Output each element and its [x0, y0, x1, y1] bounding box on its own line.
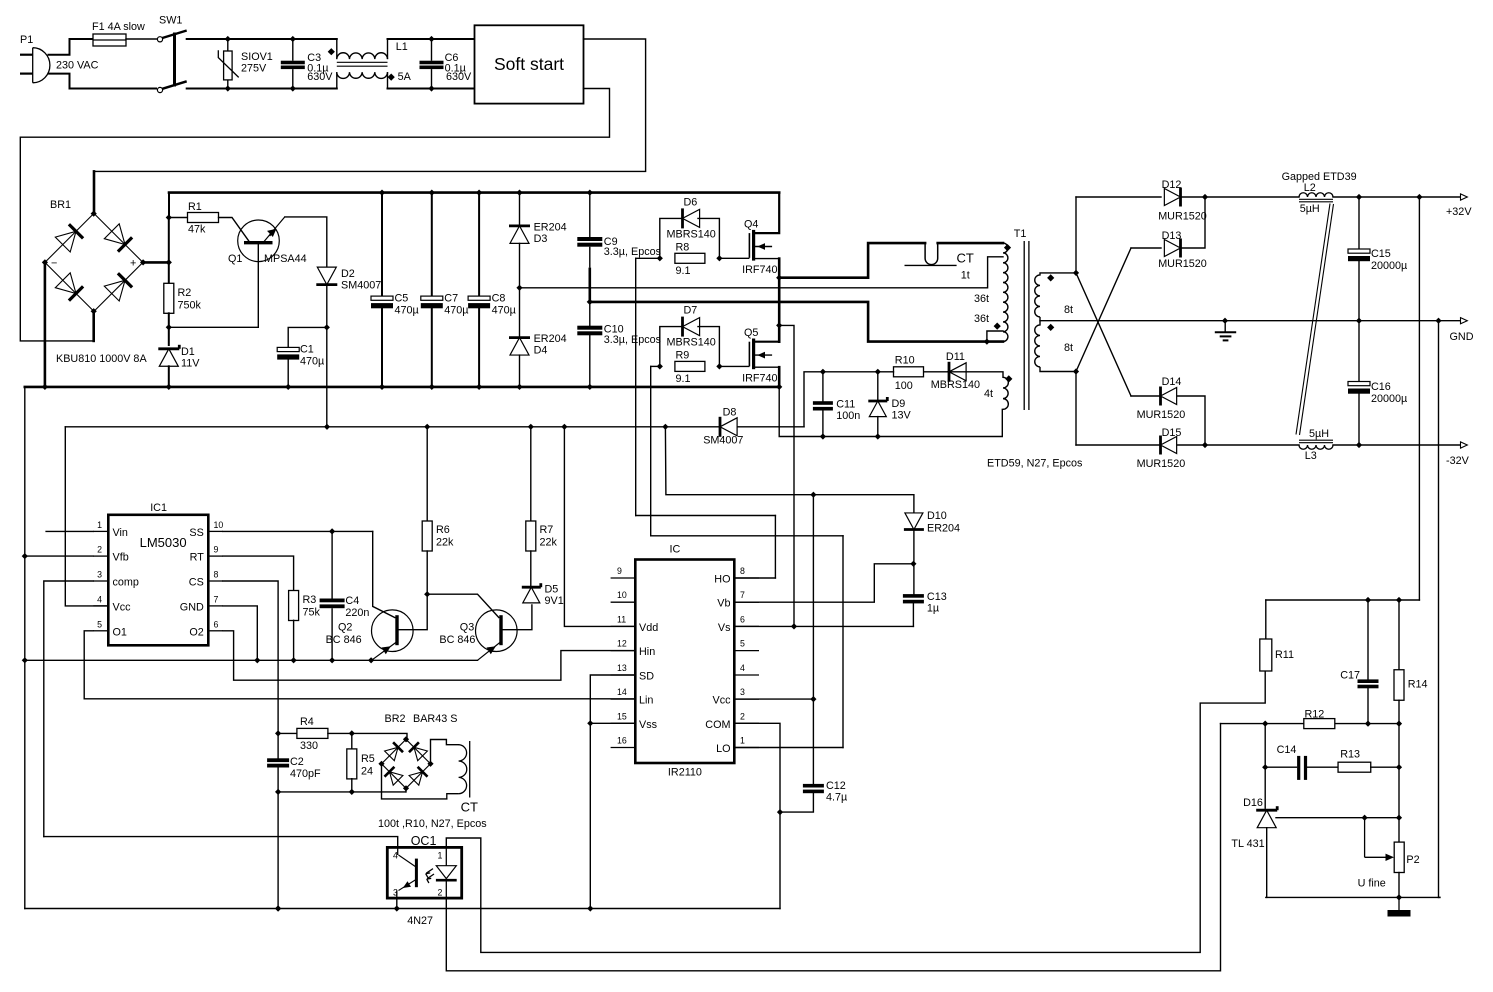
junction Vs node: [791, 623, 797, 629]
wire sec bottom drop: [1075, 372, 1077, 446]
switch SW1: [157, 31, 186, 93]
junction reg ground: [1396, 894, 1402, 900]
fuse F1: [93, 34, 126, 46]
svg-text:SM4007: SM4007: [703, 435, 743, 447]
wire BR1 bottom stub: [92, 311, 95, 341]
wire BR2 bottom: [405, 788, 407, 792]
diode D10: [904, 513, 924, 530]
pin 6 Vs IC IR2110: [718, 614, 759, 634]
svg-text:11V: 11V: [181, 358, 200, 370]
svg-text:O2: O2: [189, 626, 203, 638]
svg-text:Vfb: Vfb: [113, 552, 129, 564]
pin 1 LO IC IR2110: [716, 736, 759, 756]
wire L1 to C6 bottom: [388, 88, 432, 90]
capacitor C7: [421, 296, 443, 308]
junction D14 D15 node: [1202, 442, 1208, 448]
junction dots aux row: [820, 369, 881, 375]
wire HO drop: [774, 516, 776, 579]
capacitor C15: [1348, 249, 1370, 261]
wire L2 to +32V: [1333, 196, 1461, 198]
polarity diamond L1 bottom: [388, 74, 395, 81]
wire Q4 drain: [755, 193, 779, 234]
svg-text:9: 9: [617, 566, 622, 576]
svg-text:P2: P2: [1406, 854, 1419, 866]
wire sec top riser: [1075, 197, 1077, 273]
junction dots ref row: [1362, 815, 1403, 821]
capacitor C8: [468, 296, 490, 308]
svg-text:6: 6: [214, 619, 219, 629]
svg-text:MUR1520: MUR1520: [1137, 409, 1186, 421]
capacitor C11: [813, 401, 833, 410]
wire D11 to R10: [923, 371, 965, 373]
diode D12: [1164, 188, 1180, 207]
svg-text:1: 1: [438, 851, 443, 861]
transformer T1 core: [1024, 241, 1029, 410]
wire Q4 source drop: [778, 259, 781, 278]
pin 4 Vcc IC1: [93, 594, 131, 613]
svg-text:470µ: 470µ: [444, 305, 468, 317]
wire SD to Vss: [590, 675, 635, 723]
wire C17 bottom: [1367, 688, 1369, 723]
svg-text:comp: comp: [113, 577, 139, 589]
svg-text:1t: 1t: [961, 270, 970, 282]
junction R13 node: [1396, 764, 1402, 770]
wire BR1 plus to R2 node: [143, 261, 169, 264]
svg-text:630V: 630V: [307, 71, 333, 83]
svg-text:750k: 750k: [178, 300, 202, 312]
wire Vfb from left: [25, 555, 94, 557]
svg-text:470µ: 470µ: [300, 356, 324, 368]
svg-text:C16: C16: [1371, 381, 1391, 393]
svg-text:R6: R6: [436, 524, 450, 536]
svg-text:IR2110: IR2110: [668, 767, 702, 779]
svg-text:3: 3: [740, 687, 745, 697]
svg-text:330: 330: [300, 740, 318, 752]
svg-text:C11: C11: [836, 399, 855, 411]
wire reg bottom rail: [1266, 896, 1440, 898]
svg-text:BR2: BR2: [385, 713, 406, 725]
junction D2 C1 node: [324, 324, 330, 330]
polarity diamond 4t: [1005, 375, 1012, 382]
inductor L3: [1299, 440, 1333, 449]
svg-text:R3: R3: [303, 594, 317, 606]
wire Q3 collector: [503, 605, 532, 630]
pin 10 nc IC IR2110: [611, 590, 636, 602]
svg-text:T1: T1: [1014, 228, 1027, 240]
wire soft start out top loop: [94, 39, 646, 171]
svg-text:ER204: ER204: [534, 333, 567, 345]
svg-text:RT: RT: [190, 552, 205, 564]
wire C12 bottom: [780, 793, 813, 812]
wire C7 column top: [431, 193, 433, 297]
svg-text:O1: O1: [113, 626, 127, 638]
wire D16 column top: [1264, 724, 1266, 809]
junction R1 node: [166, 214, 172, 220]
wire Q4 source: [755, 258, 779, 260]
junction primary bottom node: [984, 339, 990, 345]
wire C5 column top: [381, 193, 383, 297]
wire left rail to bottom: [24, 387, 26, 909]
wire C11 bottom lead: [822, 411, 824, 437]
svg-text:630V: 630V: [446, 71, 472, 83]
pin 15 Vss IC IR2110: [611, 711, 658, 731]
pin 1 Vin IC1: [93, 520, 128, 539]
optocoupler OC1 phototransistor: [397, 847, 417, 898]
capacitor C13: [903, 594, 924, 603]
wire CT loop top: [779, 243, 925, 278]
svg-text:5: 5: [97, 619, 102, 629]
pin 9 RT IC1: [190, 545, 223, 564]
wire comp column: [44, 581, 94, 837]
svg-text:15: 15: [617, 711, 627, 721]
wire O1 route: [84, 631, 635, 699]
svg-text:100n: 100n: [836, 410, 860, 422]
svg-text:R13: R13: [1340, 749, 1360, 761]
wire R2 to D1: [168, 313, 170, 345]
capacitor C6: [420, 61, 444, 69]
wire Vcc riser: [812, 495, 814, 784]
svg-text:U fine: U fine: [1358, 878, 1386, 890]
junction D12 D13 node: [1202, 194, 1208, 200]
svg-text:2: 2: [438, 888, 443, 898]
svg-text:75k: 75k: [303, 607, 321, 619]
svg-text:SS: SS: [189, 527, 203, 539]
pin 3 Vcc IC IR2110: [713, 687, 760, 707]
svg-text:3.3µ, Epcos: 3.3µ, Epcos: [604, 246, 662, 258]
svg-text:D8: D8: [723, 407, 737, 419]
svg-text:ETD59, N27, Epcos: ETD59, N27, Epcos: [987, 458, 1083, 470]
wire +32V sense drop: [1418, 197, 1420, 600]
svg-text:CT: CT: [957, 251, 974, 266]
capacitor C2: [267, 758, 289, 767]
resistor R13: [1338, 762, 1371, 772]
svg-text:CS: CS: [189, 577, 204, 589]
svg-text:R14: R14: [1408, 679, 1428, 691]
svg-text:4: 4: [97, 594, 102, 604]
junction dots secondary: [1073, 270, 1079, 375]
svg-text:LM5030: LM5030: [140, 535, 187, 550]
wire C10 to bus: [589, 335, 591, 387]
svg-text:22k: 22k: [540, 537, 558, 549]
inductor L2: [1299, 193, 1333, 202]
wire D7 loop left: [660, 327, 681, 367]
svg-text:D12: D12: [1162, 179, 1182, 191]
pin 12 Hin IC IR2110: [611, 639, 656, 659]
svg-text:Vcc: Vcc: [713, 695, 732, 707]
wire R7 to D5: [530, 551, 532, 587]
svg-text:7: 7: [214, 594, 219, 604]
svg-text:C14: C14: [1277, 744, 1297, 756]
svg-text:3: 3: [97, 570, 102, 580]
svg-text:MUR1520: MUR1520: [1158, 211, 1207, 223]
wire D16 anode: [1266, 828, 1268, 898]
resistor R2: [164, 283, 174, 313]
svg-text:R9: R9: [676, 349, 690, 361]
capacitor C4: [320, 599, 345, 609]
svg-text:D2: D2: [341, 268, 355, 280]
optocoupler OC1 light arrows: [426, 869, 434, 883]
polarity diamond T1 primary top: [1004, 244, 1011, 251]
svg-text:C17: C17: [1340, 670, 1360, 682]
svg-text:SD: SD: [639, 671, 654, 683]
wire soft start out bottom loop: [20, 89, 609, 341]
wire top HV bus: [169, 191, 779, 194]
transformer T1 secondary bottom 8t: [1035, 321, 1040, 367]
wire C15 bottom: [1358, 262, 1360, 321]
svg-text:D4: D4: [534, 345, 548, 357]
svg-text:MPSA44: MPSA44: [264, 253, 307, 265]
junction D10 C13 Vb node: [910, 561, 916, 567]
wire R5 bottom lead: [351, 779, 353, 792]
resistor R1: [188, 213, 219, 223]
svg-text:BR1: BR1: [50, 199, 71, 211]
wire R12 col mid: [1398, 724, 1400, 843]
op-amp IC IR2110 box: [635, 560, 734, 764]
wire D10 to C13: [913, 530, 915, 595]
junction dots control bus: [254, 657, 374, 663]
svg-text:Vss: Vss: [639, 719, 658, 731]
wire C1 top: [288, 327, 327, 347]
svg-text:36t: 36t: [974, 313, 989, 325]
pin 3 comp IC1: [93, 570, 139, 589]
svg-text:Vb: Vb: [717, 598, 730, 610]
svg-text:−: −: [51, 258, 57, 270]
pin 5 nc IC IR2110: [734, 639, 759, 651]
junction C14 node: [1262, 764, 1268, 770]
bridge rectifier BR1: [45, 213, 143, 311]
diode D13: [1164, 239, 1180, 258]
svg-text:220n: 220n: [345, 607, 369, 619]
wire C6 to soft start bottom: [432, 88, 475, 90]
diagonal to D14: [1076, 273, 1131, 396]
wire OC1 pin1 route: [446, 671, 1265, 952]
svg-text:4N27: 4N27: [407, 915, 433, 927]
potentiometer P2: [1394, 842, 1404, 872]
transistor Q1: [238, 217, 285, 262]
svg-text:12: 12: [617, 639, 627, 649]
svg-text:GND: GND: [180, 601, 204, 613]
wire C17 top: [1367, 600, 1369, 679]
wire C5 column bottom: [381, 309, 383, 387]
potentiometer P2 wiper: [1365, 818, 1394, 861]
wire switch to varistor bottom: [187, 88, 228, 90]
svg-text:R11: R11: [1275, 649, 1294, 661]
svg-text:16: 16: [617, 736, 627, 746]
svg-text:ER204: ER204: [927, 523, 960, 535]
diode D8: [720, 417, 737, 437]
current transformer CT notch: [925, 243, 938, 265]
wire D2 to C1 tee: [326, 285, 328, 427]
wire CT loop top right: [938, 242, 1003, 245]
wire L3 to -32V: [1333, 444, 1461, 446]
junction dots aux return: [820, 433, 881, 439]
svg-text:9.1: 9.1: [676, 265, 691, 277]
pin 7 Vb IC IR2110: [717, 590, 759, 610]
wire Q5 source: [755, 366, 779, 368]
wire HO row: [636, 515, 776, 517]
wire R9 to Q5 gate: [719, 365, 748, 367]
junction dots D8 row: [324, 424, 669, 430]
transistor Q5: [749, 339, 772, 370]
wire switch to varistor top: [187, 38, 228, 40]
svg-text:470pF: 470pF: [290, 768, 321, 780]
wire Q5 drain: [755, 341, 779, 343]
junction C9 C10 node: [587, 299, 593, 305]
wire OC1 pin2 route: [446, 724, 1220, 971]
ground symbol secondary: [1215, 321, 1236, 341]
junction dots C6: [428, 36, 434, 92]
svg-text:14: 14: [617, 687, 627, 697]
wire R6 column top: [426, 427, 428, 521]
wire R3 to bus: [293, 620, 295, 660]
transformer T1 primary winding: [1003, 243, 1008, 342]
wire D14 down: [1178, 396, 1206, 445]
wire RT to R3: [223, 556, 294, 591]
wire D3 to D4: [519, 243, 521, 337]
transformer T1 secondary top exit: [1039, 317, 1041, 321]
svg-text:Vcc: Vcc: [113, 601, 132, 613]
polarity diamond secondary top: [1047, 274, 1054, 281]
svg-text:R1: R1: [188, 201, 202, 213]
wire D9 top lead: [877, 372, 879, 401]
wire C14 to R13: [1307, 766, 1338, 768]
svg-text:C1: C1: [300, 344, 314, 356]
optocoupler OC1 box: [387, 847, 461, 898]
svg-text:C5: C5: [395, 293, 409, 305]
transformer T1 secondary top 8t: [1035, 273, 1076, 317]
varistor SIOV1: [218, 39, 238, 89]
svg-text:D7: D7: [684, 305, 698, 317]
junction dots GND rail: [1222, 318, 1442, 324]
junction dots top bus: [379, 190, 593, 196]
pin 4 nc IC IR2110: [734, 663, 759, 675]
wire D6 loop left: [660, 218, 681, 258]
svg-text:13V: 13V: [892, 410, 912, 422]
capacitor C10: [577, 326, 602, 336]
svg-text:Q4: Q4: [744, 219, 758, 231]
op-amp IC1 LM5030 box: [108, 515, 208, 646]
pin 13 SD IC IR2110: [611, 663, 655, 683]
wire Vb route: [734, 564, 911, 602]
zener D16 TL431: [1256, 806, 1277, 827]
svg-text:-32V: -32V: [1446, 455, 1470, 467]
wire C9 top: [589, 193, 591, 238]
wire Vcc column: [65, 427, 108, 606]
svg-text:MBRS140: MBRS140: [667, 228, 716, 240]
wire C11 top lead: [822, 372, 824, 401]
pin 8 HO IC IR2110: [714, 566, 759, 586]
wire Vin stub: [46, 530, 93, 532]
wire varistor to C3 bottom: [228, 88, 293, 90]
svg-text:KBU810 1000V 8A: KBU810 1000V 8A: [56, 353, 147, 365]
junction Vcc node: [810, 696, 816, 702]
svg-text:4: 4: [740, 663, 745, 673]
svg-text:C2: C2: [290, 756, 304, 768]
diode D7: [683, 317, 700, 337]
wire fuse to switch: [126, 38, 157, 40]
wire control bus: [25, 659, 478, 661]
svg-text:R12: R12: [1305, 709, 1325, 721]
svg-text:4.7µ: 4.7µ: [826, 792, 847, 804]
wire R6 column bottom: [426, 551, 428, 594]
wire R2 column top: [168, 218, 170, 285]
junction D10 feed Vcc riser: [810, 492, 816, 498]
svg-text:+32V: +32V: [1446, 206, 1472, 218]
wire R13 right: [1371, 766, 1399, 768]
wire down to BR1 top: [93, 171, 96, 213]
svg-text:20000µ: 20000µ: [1371, 260, 1407, 272]
wire D15 left: [1076, 444, 1161, 446]
svg-text:470µ: 470µ: [395, 305, 419, 317]
wire Q5 source drop: [778, 367, 781, 387]
wire R9 left to LO drop: [651, 365, 660, 367]
svg-text:230 VAC: 230 VAC: [56, 60, 99, 72]
wire O2 route: [223, 631, 636, 680]
svg-text:R2: R2: [178, 287, 192, 299]
svg-text:9V1: 9V1: [545, 595, 564, 607]
wire R5 bottom rail: [278, 791, 406, 793]
resistor R9: [675, 361, 705, 371]
svg-text:L1: L1: [396, 41, 408, 53]
svg-text:D1: D1: [181, 346, 195, 358]
svg-text:MBRS140: MBRS140: [667, 337, 716, 349]
svg-text:SW1: SW1: [159, 15, 182, 27]
wire C2 top lead: [277, 733, 279, 758]
junction dots R4 row: [275, 730, 355, 736]
current transformer CT underline: [905, 264, 956, 266]
svg-text:D14: D14: [1162, 376, 1182, 388]
junction dots C3: [290, 36, 296, 92]
wire C13 to Vs: [912, 603, 914, 626]
wire D12 left: [1076, 196, 1161, 198]
svg-text:Vs: Vs: [718, 622, 731, 634]
resistor R6: [422, 521, 432, 551]
wire C8 column top: [478, 193, 480, 297]
wire Q1 collector to D2: [285, 217, 327, 271]
resistor R12: [1304, 719, 1335, 729]
zener D5: [522, 583, 541, 603]
svg-text:SM4007: SM4007: [341, 280, 381, 292]
svg-text:36t: 36t: [974, 293, 989, 305]
wire Vdd column: [564, 427, 635, 627]
junction dots left rail: [22, 553, 28, 663]
svg-text:IC: IC: [670, 544, 681, 556]
wire R6 to Q3 base: [427, 594, 499, 617]
wire D4 to bus: [519, 355, 521, 387]
wire C9 to C10: [589, 247, 591, 327]
junction dots bottom bus2: [275, 905, 593, 911]
svg-text:47k: 47k: [188, 224, 206, 236]
wire HO riser: [635, 258, 637, 515]
wire R11 top: [1265, 600, 1267, 639]
capacitor C9: [577, 237, 602, 247]
wire R4 row left: [278, 732, 297, 734]
capacitor C1: [277, 347, 299, 359]
capacitor C5: [371, 296, 393, 308]
resistor R14: [1394, 670, 1404, 701]
svg-text:C4: C4: [345, 595, 359, 607]
mains plug P1: [20, 48, 50, 83]
svg-text:11: 11: [617, 614, 626, 624]
wire R1 to Q1 base: [219, 218, 250, 243]
resistor R5: [347, 749, 357, 779]
svg-text:MUR1520: MUR1520: [1158, 258, 1207, 270]
svg-text:MUR1520: MUR1520: [1137, 458, 1186, 470]
svg-text:C7: C7: [444, 293, 458, 305]
wire R14 bottom: [1398, 700, 1400, 723]
diode D2: [316, 267, 337, 284]
svg-text:7: 7: [740, 590, 745, 600]
